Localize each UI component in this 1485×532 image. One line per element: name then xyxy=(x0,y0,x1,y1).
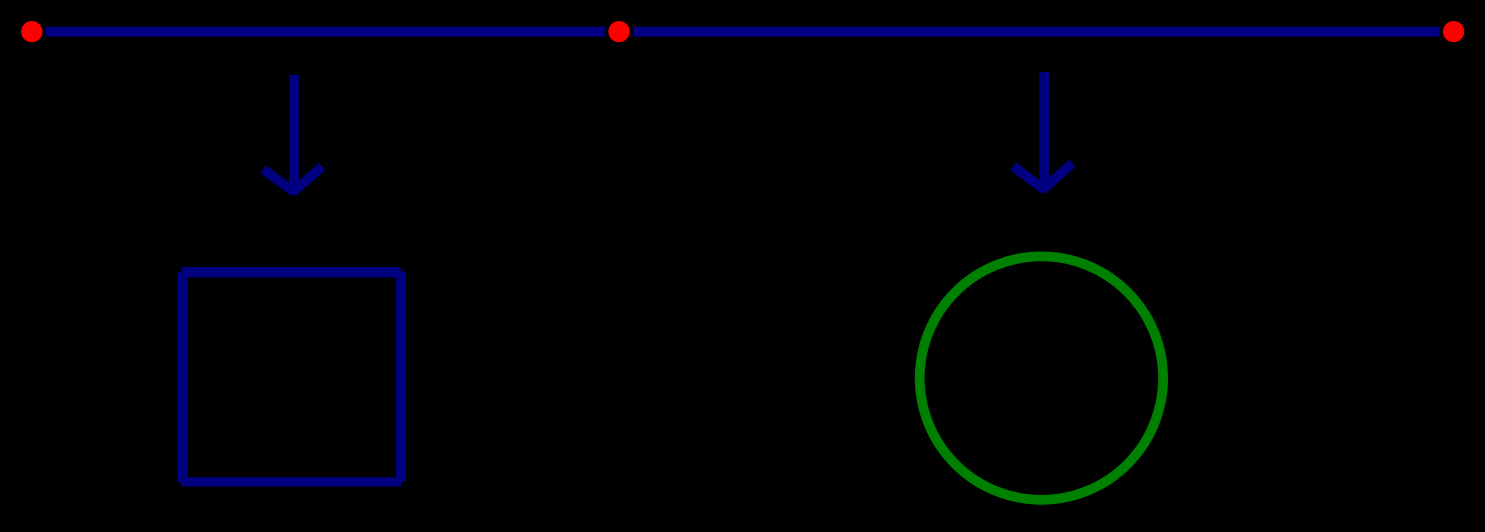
green circle xyxy=(920,256,1163,499)
wire: timeline segment B-C xyxy=(619,27,1454,37)
square left side xyxy=(177,272,187,483)
square right side xyxy=(396,271,406,481)
arrow 2 head right wing xyxy=(1042,163,1072,190)
wire: timeline segment A-B xyxy=(32,27,619,37)
arrow 1 head left wing xyxy=(263,169,294,192)
arrow 1 head right wing xyxy=(292,167,322,193)
node C (right red dot) xyxy=(1441,19,1466,44)
node A (left red dot) xyxy=(19,19,44,44)
arrow 2 head left wing xyxy=(1013,166,1044,190)
square bottom side xyxy=(181,477,401,486)
arrow 1 stem xyxy=(289,75,299,188)
node B (middle red dot) xyxy=(607,19,632,44)
square top side xyxy=(181,267,401,277)
arrow 2 stem xyxy=(1039,72,1049,185)
